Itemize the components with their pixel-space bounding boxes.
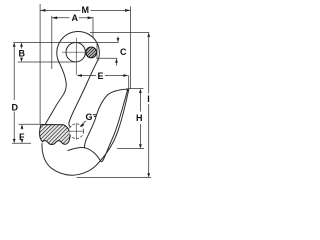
- F arrows: [21, 124, 24, 128]
- B stems: [21, 44, 23, 49]
- eye outer circle arc: [57, 31, 100, 62]
- C arrows (outside): [117, 38, 120, 42]
- G leader arrow: [80, 123, 85, 127]
- F stems: [21, 126, 23, 130]
- D stem: [13, 44, 15, 100]
- B arrows: [20, 42, 23, 46]
- inner bowl contour (saddle under link, dip, up to tip): [68, 91, 127, 162]
- hatched eye pin section: [86, 47, 97, 58]
- A dim line: [52, 17, 70, 19]
- svg-text:B: B: [19, 49, 26, 59]
- I top ref: [90, 32, 149, 34]
- G tm mark: [93, 115, 97, 117]
- long top ref line y=42.4: [13, 41, 119, 43]
- H top ref / nose bottom: [129, 88, 144, 90]
- hole bottom ref y=62: [18, 61, 76, 63]
- svg-text:D: D: [12, 103, 19, 113]
- left outline (throat S-curve from eye to saddle): [44, 62, 66, 127]
- chain link phantom circle (white fill clips hatch): [69, 123, 84, 139]
- M arrows: [40, 9, 45, 12]
- G leader: [81, 121, 86, 126]
- svg-text:M: M: [82, 5, 90, 15]
- svg-text:A: A: [72, 13, 79, 23]
- svg-text:E: E: [98, 71, 104, 81]
- A arrows: [52, 16, 57, 19]
- D arrows: [13, 42, 16, 46]
- hook tip dot: [126, 88, 129, 91]
- H bottom ref: [117, 148, 144, 150]
- inner slot diagonal (from eye right down to saddle): [69, 61, 98, 129]
- hole crosshair: [62, 38, 87, 75]
- H arrows: [139, 89, 142, 93]
- pin right tangent vertical: [96, 42, 98, 59]
- hatched hook section blob: [40, 125, 70, 145]
- A ext right: [92, 17, 94, 37]
- C arrow stems: [117, 37, 119, 41]
- E right ext (corner up): [128, 76, 130, 89]
- I arrows: [147, 33, 150, 37]
- D/F bottom ref: [12, 142, 31, 144]
- I bottom ref: [77, 177, 151, 179]
- labels: [12, 5, 150, 142]
- I dim: [148, 35, 150, 94]
- arrowheads: [13, 9, 150, 178]
- M ext right: [129, 7, 131, 89]
- nose upper edge U (tip to right of chain link, down to bowl): [84, 89, 127, 148]
- H dim: [139, 91, 141, 112]
- svg-text:G: G: [86, 112, 93, 122]
- svg-text:C: C: [120, 47, 127, 57]
- E dim: [79, 75, 97, 77]
- pin bottom ref y=58.3: [97, 57, 118, 59]
- M dim line: [40, 9, 80, 11]
- A ext left: [51, 16, 53, 69]
- svg-text:H: H: [136, 113, 143, 123]
- F top ref: [19, 123, 42, 125]
- M ext left: [39, 4, 41, 124]
- outer bowl sweep S: [42, 91, 128, 175]
- svg-text:I: I: [147, 94, 150, 104]
- svg-text:F: F: [19, 132, 25, 142]
- eye hole circle: [66, 43, 85, 62]
- E arrows: [77, 74, 82, 77]
